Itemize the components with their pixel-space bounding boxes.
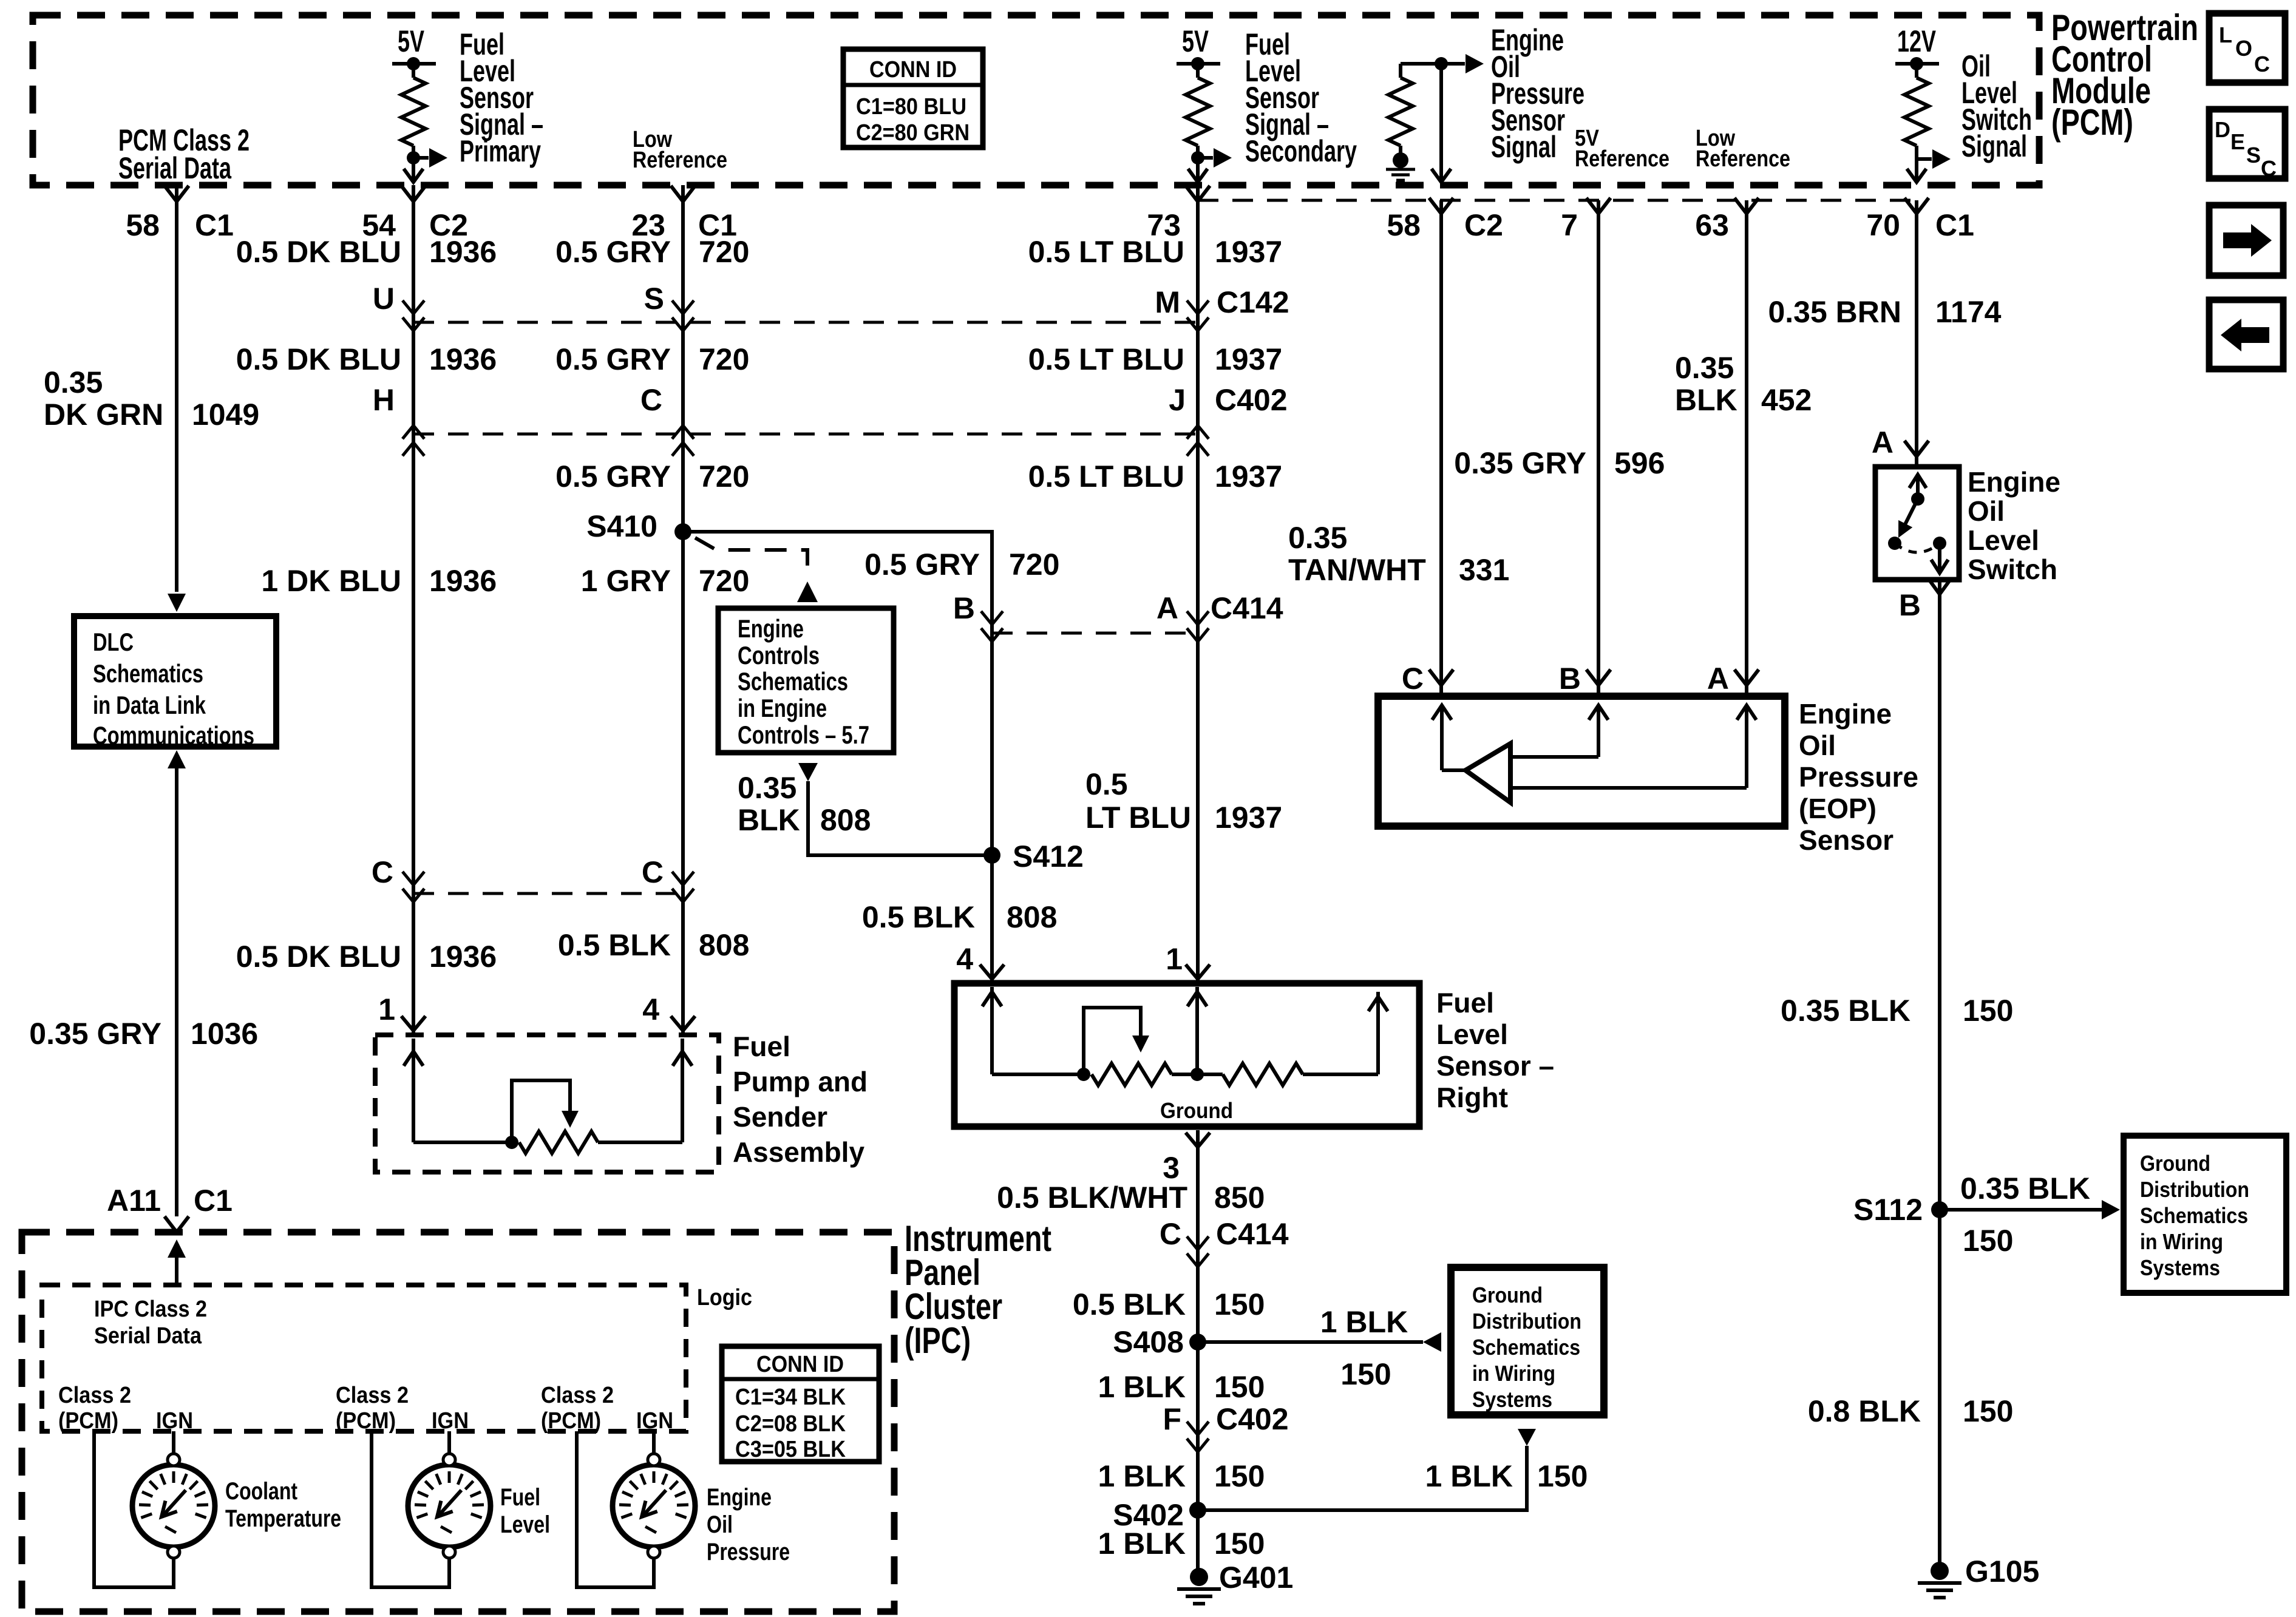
IPC Logic dashed box xyxy=(42,1285,686,1431)
svg-text:(EOP): (EOP) xyxy=(1799,793,1877,824)
svg-text:(PCM): (PCM) xyxy=(541,1408,601,1434)
svg-text:C: C xyxy=(640,383,662,417)
svg-text:IPC Class 2: IPC Class 2 xyxy=(94,1297,207,1322)
wire from IPC up to DLC box xyxy=(168,750,186,768)
fuel sensor pin 4 internal lead xyxy=(990,987,994,1074)
resistor - engine oil pressure sensor signal xyxy=(1399,64,1402,78)
svg-text:0.35: 0.35 xyxy=(738,771,796,805)
svg-text:1937: 1937 xyxy=(1215,235,1282,269)
fuel pump sender output lead xyxy=(598,1141,682,1144)
in-line connector C412 dashed line xyxy=(413,892,683,895)
op-amp triangle inside EOP sensor xyxy=(1466,744,1510,802)
svg-text:Fuel: Fuel xyxy=(500,1484,540,1511)
svg-text:D: D xyxy=(2215,117,2230,142)
svg-text:808: 808 xyxy=(820,803,871,837)
svg-text:0.8 BLK: 0.8 BLK xyxy=(1808,1394,1921,1428)
fuel pump sender wire to splice xyxy=(413,1141,512,1144)
connector crossing C402 IPC xyxy=(1187,1422,1209,1435)
svg-text:Serial Data: Serial Data xyxy=(94,1323,202,1349)
svg-text:1936: 1936 xyxy=(429,940,497,974)
wire oil level switch drop xyxy=(1915,146,1918,182)
svg-text:Oil: Oil xyxy=(707,1511,733,1538)
svg-text:1: 1 xyxy=(378,992,395,1026)
svg-text:Sensor –: Sensor – xyxy=(1436,1050,1554,1082)
connector crossing C402 (wire 4) xyxy=(1187,425,1209,439)
DESC legend box xyxy=(2209,109,2285,178)
Ground Distribution Schematics box (right) xyxy=(2124,1136,2286,1293)
svg-text:C: C xyxy=(372,855,393,889)
svg-text:4: 4 xyxy=(642,992,659,1026)
fuel sensor ground lead xyxy=(1172,1073,1223,1076)
svg-text:Oil: Oil xyxy=(1799,730,1836,761)
svg-text:C: C xyxy=(2254,52,2270,76)
fuel level gauge xyxy=(408,1465,491,1547)
svg-text:S112: S112 xyxy=(1853,1193,1923,1227)
connector crossing C402 (wire 3) xyxy=(672,425,694,439)
fuel sensor splice dot 2 xyxy=(1190,1068,1204,1081)
fuel sensor resistor 2 xyxy=(1223,1063,1303,1085)
svg-text:0.5 GRY: 0.5 GRY xyxy=(555,342,671,376)
svg-text:1936: 1936 xyxy=(429,342,497,376)
wire IGN feed to fuel level gauge xyxy=(447,1431,451,1454)
svg-text:C1: C1 xyxy=(1935,208,1974,242)
PCM module dashed outline box xyxy=(33,15,2039,185)
wire PCM feed to coolant temperature gauge xyxy=(94,1431,174,1587)
svg-text:0.5 GRY: 0.5 GRY xyxy=(555,459,671,493)
svg-text:Controls: Controls xyxy=(738,641,820,670)
splice S412 xyxy=(983,847,1000,864)
svg-text:0.35 GRY: 0.35 GRY xyxy=(29,1017,161,1051)
splice S112 xyxy=(1931,1201,1948,1218)
svg-text:C402: C402 xyxy=(1216,1402,1289,1436)
svg-text:Signal: Signal xyxy=(1961,129,2027,163)
Engine Oil Pressure (EOP) Sensor box xyxy=(1378,696,1785,826)
svg-text:720: 720 xyxy=(699,564,749,598)
svg-text:150: 150 xyxy=(1214,1459,1265,1493)
svg-text:70: 70 xyxy=(1866,208,1900,242)
svg-text:C1: C1 xyxy=(194,1184,233,1218)
svg-text:150: 150 xyxy=(1963,1394,2013,1428)
wire engine controls box to S412 xyxy=(798,763,818,781)
svg-text:1 GRY: 1 GRY xyxy=(581,564,671,598)
svg-text:0.35: 0.35 xyxy=(1288,521,1347,555)
svg-text:B: B xyxy=(1559,662,1581,696)
svg-text:58: 58 xyxy=(126,208,160,242)
svg-text:Class 2: Class 2 xyxy=(541,1383,614,1408)
svg-text:1937: 1937 xyxy=(1215,342,1282,376)
svg-text:150: 150 xyxy=(1214,1287,1265,1321)
fuel sensor pin 4 connector chevron xyxy=(980,964,1004,979)
svg-text:63: 63 xyxy=(1695,208,1729,242)
svg-text:720: 720 xyxy=(699,459,749,493)
fuel pump sender wiper arm xyxy=(512,1080,570,1142)
svg-text:1 DK BLU: 1 DK BLU xyxy=(261,564,401,598)
svg-text:(IPC): (IPC) xyxy=(905,1320,971,1361)
svg-text:Reference: Reference xyxy=(1696,146,1790,172)
wire S402 to left ground distribution box xyxy=(1198,1446,1527,1510)
svg-text:C: C xyxy=(1402,662,1424,696)
svg-text:Schematics: Schematics xyxy=(738,667,848,696)
svg-text:Level: Level xyxy=(500,1511,550,1538)
wire TAN/WHT 331 (EOP signal) xyxy=(1439,200,1443,696)
CONN ID table (IPC connectors) xyxy=(722,1346,879,1462)
svg-text:Pressure: Pressure xyxy=(707,1539,790,1565)
svg-text:DK GRN: DK GRN xyxy=(44,398,163,432)
svg-text:720: 720 xyxy=(699,342,749,376)
wire low-reference GRY from PCM pin 23 C1 xyxy=(681,185,685,1033)
svg-text:in Engine: in Engine xyxy=(738,694,827,722)
svg-text:Engine: Engine xyxy=(1799,698,1892,730)
splice S410 xyxy=(674,523,691,540)
svg-text:Class 2: Class 2 xyxy=(336,1383,409,1408)
svg-text:Schematics: Schematics xyxy=(93,659,203,688)
fuel sensor pin 1 internal lead xyxy=(1195,987,1199,1074)
CONN ID table (PCM connectors) xyxy=(843,49,983,147)
svg-text:E: E xyxy=(2230,129,2245,154)
svg-text:C2: C2 xyxy=(1464,208,1503,242)
svg-text:Switch: Switch xyxy=(1968,554,2057,585)
svg-text:150: 150 xyxy=(1537,1459,1588,1493)
svg-text:Ground: Ground xyxy=(2140,1151,2210,1176)
svg-text:Ground: Ground xyxy=(1472,1283,1543,1307)
svg-text:150: 150 xyxy=(1214,1527,1265,1561)
svg-text:G105: G105 xyxy=(1965,1554,2039,1588)
svg-text:L: L xyxy=(2219,22,2232,47)
svg-text:Pump and: Pump and xyxy=(733,1066,868,1097)
svg-text:720: 720 xyxy=(699,235,749,269)
wire S112 down to G105 xyxy=(1938,1210,1941,1564)
svg-text:U: U xyxy=(373,282,395,316)
switch internal contacts xyxy=(1916,475,1920,499)
svg-text:C414: C414 xyxy=(1216,1217,1289,1251)
fuel pump pin 4 connector chevron xyxy=(671,1016,695,1031)
svg-text:1936: 1936 xyxy=(429,235,497,269)
wire PCM class2 serial data (pin 58 C1) vertical xyxy=(165,186,189,202)
svg-text:850: 850 xyxy=(1214,1181,1265,1215)
svg-text:Distribution: Distribution xyxy=(2140,1177,2249,1202)
svg-text:1937: 1937 xyxy=(1215,459,1282,493)
svg-text:1936: 1936 xyxy=(429,564,497,598)
svg-text:F: F xyxy=(1163,1402,1181,1436)
svg-text:808: 808 xyxy=(699,928,749,962)
svg-text:150: 150 xyxy=(1214,1370,1265,1404)
fuel sensor wiper arm xyxy=(1084,1008,1141,1074)
svg-text:M: M xyxy=(1155,285,1180,319)
dashed branch S410 to engine controls xyxy=(695,538,807,580)
svg-text:BLK: BLK xyxy=(738,803,800,837)
svg-text:(PCM): (PCM) xyxy=(336,1408,396,1434)
svg-text:C: C xyxy=(642,855,664,889)
svg-text:Secondary: Secondary xyxy=(1245,134,1357,168)
svg-text:0.35 BLK: 0.35 BLK xyxy=(1781,994,1911,1028)
coolant temperature gauge xyxy=(132,1465,215,1547)
wire BLK 452 (EOP low ref) xyxy=(1745,200,1748,696)
svg-text:7: 7 xyxy=(1561,208,1578,242)
resistor - fuel level secondary pull-up xyxy=(1186,78,1210,146)
fuel sensor splice dot 1 xyxy=(1077,1068,1090,1081)
svg-text:Pressure: Pressure xyxy=(1799,761,1918,793)
connector crossing C412 (wire 2) xyxy=(402,872,424,885)
svg-text:DLC: DLC xyxy=(93,628,134,656)
svg-text:O: O xyxy=(2235,36,2252,61)
svg-text:1937: 1937 xyxy=(1215,801,1282,835)
ground G105 xyxy=(1931,1562,1949,1580)
svg-text:CONN ID: CONN ID xyxy=(869,57,957,83)
resistor - oil level switch pull-up xyxy=(1904,78,1929,146)
svg-text:0.5 BLK: 0.5 BLK xyxy=(862,900,975,934)
svg-text:LT BLU: LT BLU xyxy=(1085,801,1191,835)
svg-text:Engine: Engine xyxy=(707,1484,772,1511)
svg-text:A: A xyxy=(1156,591,1178,625)
connector crossing C412 (wire 3) xyxy=(672,872,694,885)
svg-text:0.35: 0.35 xyxy=(1675,351,1734,385)
EOP pin B internal lead xyxy=(1597,705,1600,757)
svg-text:TAN/WHT: TAN/WHT xyxy=(1288,553,1426,587)
svg-text:C: C xyxy=(1160,1217,1181,1251)
wire BLK 150 from switch B to S112 xyxy=(1938,580,1941,1210)
wire EOP signal vertical drop xyxy=(1439,64,1443,182)
Engine Controls Schematics box xyxy=(718,608,894,753)
fuel pump pin 1 connector chevron xyxy=(401,1016,426,1031)
svg-text:Controls – 5.7: Controls – 5.7 xyxy=(738,720,869,749)
svg-text:C2=08 BLK: C2=08 BLK xyxy=(735,1411,846,1437)
svg-text:58: 58 xyxy=(1387,208,1421,242)
svg-text:1049: 1049 xyxy=(192,398,259,432)
svg-text:0.5 GRY: 0.5 GRY xyxy=(555,235,671,269)
svg-text:CONN ID: CONN ID xyxy=(756,1352,844,1377)
svg-text:Ground: Ground xyxy=(1160,1098,1233,1123)
wire PCM feed to engine oil pressure gauge xyxy=(577,1431,654,1587)
svg-text:12V: 12V xyxy=(1897,24,1936,58)
svg-text:Sensor: Sensor xyxy=(1799,824,1894,856)
Ground Distribution Schematics box (left) xyxy=(1451,1267,1604,1415)
svg-text:0.5 BLK: 0.5 BLK xyxy=(1073,1287,1186,1321)
fuel sensor resistor 1 xyxy=(1092,1063,1172,1085)
svg-text:5V: 5V xyxy=(1182,24,1209,58)
Instrument Panel Cluster dashed box xyxy=(22,1232,894,1612)
svg-text:Engine: Engine xyxy=(1968,466,2060,498)
svg-text:A11: A11 xyxy=(107,1184,161,1218)
svg-text:C1: C1 xyxy=(195,208,234,242)
in-line connector dashed line (PCM right side) xyxy=(1198,199,1917,202)
in-line connector C414 dashed line xyxy=(992,632,1198,635)
fuel sensor pin 1 connector chevron xyxy=(1186,964,1210,979)
svg-text:C414: C414 xyxy=(1211,591,1283,625)
svg-text:A: A xyxy=(1872,425,1894,459)
wire S408 to ground distribution (left) xyxy=(1198,1340,1423,1344)
svg-text:C402: C402 xyxy=(1215,383,1288,417)
svg-text:0.5 DK BLU: 0.5 DK BLU xyxy=(236,940,401,974)
svg-text:1 BLK: 1 BLK xyxy=(1320,1305,1408,1339)
wire PCM feed to fuel level gauge xyxy=(372,1431,449,1587)
svg-text:Signal: Signal xyxy=(1491,130,1557,164)
svg-text:S408: S408 xyxy=(1113,1325,1184,1359)
svg-text:Communications: Communications xyxy=(93,721,254,750)
svg-text:Systems: Systems xyxy=(1472,1387,1552,1412)
EOP pin A internal lead xyxy=(1745,705,1748,788)
svg-text:1174: 1174 xyxy=(1935,295,2002,329)
svg-text:0.5 DK BLU: 0.5 DK BLU xyxy=(236,235,401,269)
svg-text:Serial Data: Serial Data xyxy=(118,151,232,185)
in-line connector C402 dashed line xyxy=(413,433,1198,436)
svg-text:Primary: Primary xyxy=(460,134,541,168)
svg-text:Systems: Systems xyxy=(2140,1255,2220,1280)
svg-text:C142: C142 xyxy=(1217,285,1289,319)
svg-text:1 BLK: 1 BLK xyxy=(1098,1527,1186,1561)
wire EOP signal horizontal + junction xyxy=(1401,62,1441,66)
svg-text:Assembly: Assembly xyxy=(733,1136,864,1168)
connector crossing C142 (wire 2) xyxy=(402,300,424,314)
svg-text:Reference: Reference xyxy=(633,147,727,173)
LOC legend box xyxy=(2209,13,2285,83)
engine oil pressure gauge xyxy=(613,1465,695,1547)
svg-text:Level: Level xyxy=(1968,524,2039,556)
svg-text:0.35 GRY: 0.35 GRY xyxy=(1454,446,1586,480)
svg-text:1 BLK: 1 BLK xyxy=(1425,1459,1513,1493)
svg-text:C: C xyxy=(2261,156,2277,181)
junction + arrows at primary resistor bottom xyxy=(412,146,415,182)
svg-text:Fuel: Fuel xyxy=(733,1031,790,1062)
connector crossing C142 (wire 3) xyxy=(672,300,694,314)
svg-text:Temperature: Temperature xyxy=(225,1505,341,1532)
svg-text:3: 3 xyxy=(1163,1151,1180,1185)
connector crossing C142 (wire 4) xyxy=(1187,300,1209,314)
wire branch from S410 to the right then down xyxy=(683,532,992,619)
svg-text:331: 331 xyxy=(1459,553,1509,587)
right-arrow legend box xyxy=(2209,205,2283,276)
svg-text:452: 452 xyxy=(1761,383,1812,417)
svg-text:IGN: IGN xyxy=(156,1408,193,1434)
svg-text:150: 150 xyxy=(1963,1224,2013,1258)
svg-text:Schematics: Schematics xyxy=(1472,1335,1580,1360)
svg-text:596: 596 xyxy=(1614,446,1665,480)
svg-text:C1=80 BLU: C1=80 BLU xyxy=(856,94,966,120)
svg-text:4: 4 xyxy=(956,942,973,976)
svg-text:H: H xyxy=(373,383,395,417)
svg-text:C2=80 GRN: C2=80 GRN xyxy=(856,120,970,146)
svg-text:BLK: BLK xyxy=(1675,383,1737,417)
wire fuel-level-primary DK BLU from PCM pin 54 C2 xyxy=(412,185,415,1033)
wire GRY 596 (EOP 5V ref) xyxy=(1597,200,1600,696)
svg-text:0.5 LT BLU: 0.5 LT BLU xyxy=(1028,459,1184,493)
svg-text:Level: Level xyxy=(1436,1019,1508,1050)
svg-text:A: A xyxy=(1707,662,1729,696)
svg-text:0.5 DK BLU: 0.5 DK BLU xyxy=(236,342,401,376)
svg-text:Schematics: Schematics xyxy=(2140,1203,2248,1228)
svg-text:Class 2: Class 2 xyxy=(58,1383,131,1408)
svg-text:C1=34 BLK: C1=34 BLK xyxy=(735,1385,846,1410)
svg-text:0.5 GRY: 0.5 GRY xyxy=(864,547,980,581)
connector crossing C402 (wire 2) xyxy=(402,425,424,439)
svg-text:Reference: Reference xyxy=(1575,146,1669,172)
svg-text:Logic: Logic xyxy=(697,1285,752,1310)
svg-text:IGN: IGN xyxy=(432,1408,469,1434)
fuel pump pin 1 internal lead xyxy=(412,1039,415,1142)
svg-text:C3=05 BLK: C3=05 BLK xyxy=(735,1437,846,1462)
svg-text:Engine: Engine xyxy=(738,614,804,643)
svg-text:720: 720 xyxy=(1009,547,1059,581)
svg-text:0.35 BRN: 0.35 BRN xyxy=(1768,295,1901,329)
left-arrow legend box xyxy=(2209,300,2283,369)
svg-text:Right: Right xyxy=(1436,1082,1508,1113)
svg-text:Fuel: Fuel xyxy=(1436,987,1494,1019)
svg-text:in Data Link: in Data Link xyxy=(93,691,206,719)
svg-text:5V: 5V xyxy=(398,24,424,58)
wire serial data into logic box xyxy=(168,1239,186,1258)
in-line connector C142 dashed line xyxy=(413,321,1198,324)
svg-text:Sender: Sender xyxy=(733,1101,827,1133)
svg-text:0.35: 0.35 xyxy=(44,365,103,399)
resistor - fuel level primary pull-up xyxy=(401,78,426,146)
connector crossing C414 (branch) xyxy=(981,611,1003,625)
svg-text:Coolant: Coolant xyxy=(225,1478,297,1505)
svg-text:S: S xyxy=(2246,143,2261,168)
ground G401 xyxy=(1190,1568,1208,1586)
svg-text:0.5 BLK: 0.5 BLK xyxy=(558,928,671,962)
svg-text:IGN: IGN xyxy=(636,1408,673,1434)
svg-text:1 BLK: 1 BLK xyxy=(1098,1370,1186,1404)
svg-text:S410: S410 xyxy=(586,509,657,543)
Fuel Pump and Sender Assembly dashed box xyxy=(375,1035,719,1172)
ground symbol inside PCM (EOP) xyxy=(1393,152,1408,168)
svg-text:0.5 BLK/WHT: 0.5 BLK/WHT xyxy=(997,1181,1187,1215)
svg-text:0.5: 0.5 xyxy=(1085,767,1128,801)
svg-text:0.5 LT BLU: 0.5 LT BLU xyxy=(1028,235,1184,269)
splice S408 xyxy=(1189,1334,1206,1351)
svg-text:1036: 1036 xyxy=(191,1017,258,1051)
junction + arrows at secondary resistor bottom xyxy=(1196,146,1200,182)
svg-text:S: S xyxy=(644,282,664,316)
svg-text:S412: S412 xyxy=(1013,839,1084,873)
svg-text:G401: G401 xyxy=(1219,1561,1293,1595)
svg-text:B: B xyxy=(1899,588,1921,622)
svg-text:150: 150 xyxy=(1963,994,2013,1028)
svg-text:in Wiring: in Wiring xyxy=(2140,1229,2223,1254)
wire fuel-level-secondary LT BLU from PCM pin 73 xyxy=(1196,185,1200,981)
svg-text:(PCM): (PCM) xyxy=(2051,102,2133,143)
svg-text:1 BLK: 1 BLK xyxy=(1098,1459,1186,1493)
svg-text:(PCM): (PCM) xyxy=(58,1408,118,1434)
svg-text:Oil: Oil xyxy=(1968,495,2005,527)
wire IGN feed to coolant temperature gauge xyxy=(172,1431,175,1454)
fuel pump sender resistor xyxy=(519,1131,598,1153)
wire BLK/WHT 850 from fuel sensor pin 3 xyxy=(1186,1133,1210,1147)
wire IGN feed to engine oil pressure gauge xyxy=(652,1431,656,1454)
svg-text:0.35 BLK: 0.35 BLK xyxy=(1960,1171,2090,1205)
wire S112 to ground distribution (right) xyxy=(1940,1208,2102,1212)
EOP pin C internal lead xyxy=(1440,705,1444,770)
svg-text:0.5 LT BLU: 0.5 LT BLU xyxy=(1028,342,1184,376)
Engine Oil Level Switch box xyxy=(1875,467,1959,580)
svg-text:B: B xyxy=(953,591,975,625)
connector crossing C414 lower xyxy=(1187,1236,1209,1250)
svg-text:808: 808 xyxy=(1007,900,1057,934)
svg-text:in Wiring: in Wiring xyxy=(1472,1361,1555,1386)
Fuel Level Sensor Right box xyxy=(954,983,1419,1127)
svg-text:150: 150 xyxy=(1340,1357,1391,1391)
svg-text:J: J xyxy=(1169,383,1186,417)
DLC Schematics box xyxy=(74,616,276,747)
wire GRY 720 branch down to C414 xyxy=(990,532,994,981)
connector crossing C414 (wire 4) xyxy=(1187,611,1209,625)
svg-text:Distribution: Distribution xyxy=(1472,1309,1581,1334)
svg-text:1: 1 xyxy=(1166,942,1183,976)
wire BRN 1174 (oil level switch signal) xyxy=(1915,200,1918,467)
splice S402 xyxy=(1189,1502,1206,1519)
